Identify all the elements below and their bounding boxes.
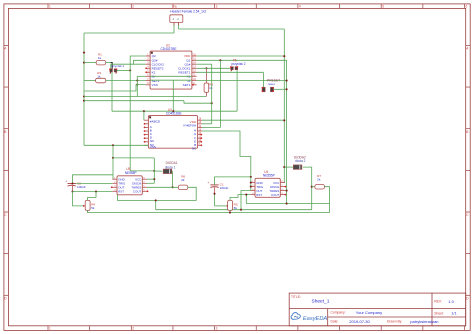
svg-text:P9: P9 bbox=[173, 5, 177, 9]
svg-text:TITLE:: TITLE: bbox=[291, 295, 301, 299]
wire U3 row4 to U4 node bbox=[202, 131, 251, 177]
junction loop bbox=[155, 199, 157, 201]
wire CLOCK2 west bbox=[111, 63, 134, 65]
junction OUT rail209 bbox=[240, 209, 242, 211]
resistor R2 body bbox=[96, 78, 106, 83]
wire bottom rail y212 bbox=[88, 210, 330, 212]
svg-text:2019-07-30: 2019-07-30 bbox=[349, 319, 370, 324]
wire rail jog to Q1# net bbox=[184, 101, 212, 104]
wire Q1# vertical to U3 bbox=[211, 64, 213, 124]
wire bus y111 bbox=[112, 110, 237, 112]
svg-text:reset: reset bbox=[268, 82, 275, 86]
push button reset bbox=[262, 87, 265, 92]
svg-text:1/1: 1/1 bbox=[451, 311, 456, 315]
svg-text:Sheet_1: Sheet_1 bbox=[312, 299, 330, 305]
junction VSS branch bbox=[112, 144, 114, 146]
svg-text:Header Female 2.54_1x2: Header Female 2.54_1x2 bbox=[170, 9, 206, 13]
capacitor C1 polarized bbox=[210, 184, 218, 186]
wire Q1# east bbox=[197, 63, 212, 65]
U4 pin stubs bbox=[250, 182, 255, 184]
svg-text:#ABCD: #ABCD bbox=[150, 120, 161, 124]
wire R6 feedback loop bbox=[118, 187, 197, 200]
wire U5 VCC bbox=[147, 178, 154, 180]
svg-text:Drawn By:: Drawn By: bbox=[387, 320, 402, 324]
wire J1 PRESET net to V2 bbox=[197, 80, 287, 82]
wire top rail right bbox=[179, 28, 285, 30]
junction U4 TRIG bbox=[250, 186, 252, 188]
svg-text:4: 4 bbox=[299, 4, 301, 8]
frame row ticks bbox=[4, 44, 8, 46]
wire R5 top to U4 RST loop bbox=[230, 195, 246, 201]
svg-text:2k: 2k bbox=[181, 178, 185, 182]
svg-text:SET1: SET1 bbox=[183, 83, 191, 87]
svg-text:CD4511BE: CD4511BE bbox=[166, 112, 182, 116]
junction V2 rail y203 bbox=[286, 203, 288, 205]
junction C2 top bbox=[71, 182, 73, 184]
wire loop branch down bbox=[155, 200, 157, 209]
wire diode2 cathode down bbox=[303, 167, 312, 210]
wire button1 to corner bbox=[117, 69, 130, 71]
svg-text:dioda 1: dioda 1 bbox=[165, 165, 176, 169]
svg-text:1.0: 1.0 bbox=[448, 299, 454, 304]
wire J2-K1 crossing under U2 bbox=[150, 75, 192, 77]
wire rail to R2 bbox=[84, 80, 96, 82]
svg-text:CD4027BE: CD4027BE bbox=[161, 47, 177, 51]
junction diode1/THRES bbox=[172, 186, 174, 188]
junction bus branch bbox=[172, 110, 174, 112]
wire reset to V2 bbox=[274, 88, 287, 90]
svg-text:1: 1 bbox=[49, 326, 51, 330]
junction R5/rail bbox=[229, 212, 231, 214]
junction V2 PRESET bbox=[286, 80, 288, 82]
wire to R4 bbox=[73, 192, 84, 206]
svg-text:COUT: COUT bbox=[271, 193, 279, 197]
wire button1 node down to diode line bbox=[129, 70, 131, 170]
wire U3 VDD to V1 bbox=[202, 119, 284, 121]
svg-text:EasyEDA: EasyEDA bbox=[303, 316, 328, 322]
wire rail y96 to R3 bbox=[84, 96, 206, 98]
svg-text:2k: 2k bbox=[317, 178, 321, 182]
svg-text:VSS: VSS bbox=[150, 145, 156, 149]
wire rail y203 bbox=[246, 203, 329, 205]
wire button1 pin3 drop to bus bbox=[111, 72, 113, 111]
svg-text:NE555P: NE555P bbox=[125, 171, 137, 175]
wire U5 DISCH bbox=[147, 182, 154, 184]
wire Q1 vertical to U3 bbox=[219, 60, 221, 127]
wire bus to U3 pin A bbox=[143, 111, 145, 120]
svg-text:2: 2 bbox=[132, 326, 134, 330]
svg-text:Company:: Company: bbox=[331, 311, 346, 315]
wire C2 top up to GND net bbox=[73, 175, 114, 184]
junction RST/R5 bbox=[245, 194, 247, 196]
junction left rail R1 bbox=[83, 62, 85, 64]
svg-text:RST: RST bbox=[118, 190, 124, 194]
svg-text:Your Company: Your Company bbox=[356, 310, 382, 315]
wire R2 to U2 SET2 bbox=[106, 80, 146, 82]
wire U4 OUT loop bbox=[241, 191, 250, 210]
svg-text:3: 3 bbox=[216, 326, 218, 330]
svg-text:Date:: Date: bbox=[331, 320, 339, 324]
junction R4 top net bbox=[95, 190, 97, 192]
wire U4 RST loop bbox=[246, 195, 250, 204]
svg-text:Sheet:: Sheet: bbox=[434, 311, 444, 315]
junction CLOCK1/R3 bbox=[205, 67, 207, 69]
resistor R7 body bbox=[315, 185, 325, 190]
wire J2 west bbox=[137, 75, 145, 77]
resistor R1 body bbox=[96, 60, 106, 65]
wire drop to reset button bbox=[262, 72, 264, 87]
wire V2 Q1 net vertical bbox=[286, 60, 288, 203]
svg-text:przycisk 2: przycisk 2 bbox=[231, 62, 245, 66]
resistor R5 bbox=[228, 200, 233, 210]
capacitor C2 polarized bbox=[68, 183, 76, 185]
svg-text:1k: 1k bbox=[209, 86, 213, 90]
wire C2 bottom to U5 RST bbox=[73, 191, 113, 193]
junction V2 THRES bbox=[286, 190, 288, 192]
wire left power rail bbox=[83, 33, 85, 145]
U2 unconnected pin markers RESET2 K2 bbox=[145, 67, 147, 69]
junction VCC node bbox=[153, 178, 155, 180]
junction diode1 left bbox=[153, 170, 155, 172]
wire button2 pin4 drop to bus bbox=[236, 70, 238, 111]
wire C2 bottom stub bbox=[72, 186, 74, 192]
junction C2 bottom bbox=[71, 190, 73, 192]
svg-text:5: 5 bbox=[382, 4, 384, 8]
junction left rail top bbox=[83, 52, 85, 54]
wire R3 bottom to rail bbox=[205, 92, 207, 96]
P9 pin 2 stub bbox=[178, 22, 180, 25]
wire C1 bottom down bbox=[214, 194, 216, 206]
push button przycisk 2 P6 bbox=[231, 67, 234, 70]
junction V2 reset bbox=[286, 88, 288, 90]
wire into U3 pin row3 bbox=[202, 126, 220, 128]
junction Q1# net bbox=[211, 102, 213, 104]
svg-text:COUT: COUT bbox=[133, 190, 141, 194]
svg-text:1k: 1k bbox=[98, 56, 102, 60]
wire V1 power vertical bbox=[283, 29, 285, 183]
svg-text:VSS: VSS bbox=[152, 83, 158, 87]
wire to R7 bbox=[312, 186, 315, 188]
wire R7 right down to rail bbox=[324, 187, 329, 213]
wire R1 to button1 bbox=[106, 62, 113, 64]
junction VSS bbox=[136, 84, 138, 86]
junction rail y100 bbox=[83, 100, 85, 102]
wire branch down to bus bbox=[172, 80, 174, 111]
U3 unconnected pin markers bbox=[144, 123, 146, 125]
wire C1 bottom stub bbox=[214, 187, 216, 194]
wire VSS to rail bbox=[84, 85, 145, 91]
frame column ticks bbox=[47, 4, 49, 8]
U4 COUT marker bbox=[285, 194, 287, 196]
svg-text:dioda 2: dioda 2 bbox=[295, 159, 306, 163]
junction V1 diode2 bbox=[283, 166, 285, 168]
junction Q1 branch bbox=[219, 59, 221, 61]
wire V1 to diode2 anode bbox=[284, 166, 293, 168]
svg-text:6: 6 bbox=[466, 4, 468, 8]
wire C1 top to U4 node bbox=[215, 177, 251, 185]
svg-text:K*#EFGH: K*#EFGH bbox=[183, 123, 196, 127]
wire SET2-J1 crossing under U2 bbox=[150, 79, 192, 81]
U3 pin1 marker bbox=[149, 116, 151, 118]
wire P9 pin2 drop bbox=[178, 25, 180, 29]
junction bus U3 pinA bbox=[143, 110, 145, 112]
wire y158 horizontal bbox=[113, 157, 154, 159]
junction y158 bbox=[112, 157, 114, 159]
resistor R6 body bbox=[178, 185, 188, 190]
svg-text:100uF: 100uF bbox=[220, 186, 229, 190]
svg-text:B: B bbox=[466, 130, 468, 134]
wire THRES to R6 bbox=[147, 186, 178, 188]
wire to diode1 anode bbox=[154, 170, 162, 172]
U5 pin stubs bbox=[112, 178, 117, 180]
U3 pin stubs bbox=[144, 119, 149, 121]
junction U4 GND bbox=[250, 182, 252, 184]
wire to R5 bbox=[215, 205, 228, 207]
U4 DISCH marker bbox=[285, 186, 287, 188]
wire Q2#-CLOCK2 loop bbox=[134, 60, 146, 64]
wire rail to R1 bbox=[84, 62, 96, 64]
wire R5 bottom bbox=[229, 210, 231, 212]
svg-text:NE555P: NE555P bbox=[263, 174, 275, 178]
wire rail y209 bbox=[156, 209, 312, 211]
push button przycisk 1 bbox=[110, 69, 113, 72]
svg-text:5k: 5k bbox=[91, 206, 95, 210]
svg-text:B: B bbox=[4, 130, 6, 134]
P9 pin 1 stub bbox=[173, 22, 175, 25]
junction V1 VDD U3 bbox=[283, 119, 285, 121]
svg-text:REV:: REV: bbox=[434, 300, 442, 304]
wire branch down bbox=[112, 145, 114, 158]
U5 OUT marker bbox=[111, 186, 113, 188]
U2 pin1 marker bbox=[151, 52, 153, 54]
EasyEDA logo bbox=[291, 313, 300, 320]
resistor R3 body bbox=[204, 83, 209, 92]
junction V1 VDD U2 bbox=[283, 55, 285, 57]
svg-text:RST: RST bbox=[256, 193, 262, 197]
wire Q1 east to V2 bbox=[197, 59, 287, 61]
wire P9 pin1 drop bbox=[173, 25, 175, 33]
wire CLOCK2 into button1 bbox=[110, 64, 112, 69]
diode DIODA2 body bbox=[293, 165, 302, 170]
junction diode2/R7 bbox=[311, 186, 313, 188]
wire VCC DISCH node vertical bbox=[153, 158, 155, 183]
svg-text:5k: 5k bbox=[234, 206, 238, 210]
wire VSS rail U3 bbox=[84, 144, 148, 146]
wire button1 node to diode node bbox=[130, 170, 154, 172]
wire down to U5 GND bbox=[112, 158, 114, 179]
junction C1 net bbox=[213, 193, 215, 195]
junction SET2/J2 bbox=[136, 79, 138, 81]
wire corner up to U2 Q2 bbox=[130, 56, 145, 70]
svg-text:100uF: 100uF bbox=[77, 185, 86, 189]
connector P9 body bbox=[170, 15, 183, 23]
U2 SET1 unconnected marker bbox=[192, 84, 194, 86]
wire rail y100 bbox=[84, 100, 184, 102]
wire C2 to U5 TRIG bbox=[76, 182, 113, 184]
wire RESET1 east bbox=[197, 71, 264, 73]
wire J2 vertical to GND rail bbox=[136, 76, 138, 96]
diode DIODA1 body bbox=[163, 169, 172, 174]
wire R4 top to RST net bbox=[88, 192, 96, 201]
wire into U3 pin row2 bbox=[202, 123, 212, 125]
resistor R4 bbox=[85, 200, 90, 210]
junction rail y96 bbox=[83, 95, 85, 97]
junction C1/U4 node bbox=[250, 176, 252, 178]
wire THRES to V2 bbox=[285, 190, 287, 192]
U5 COUT marker bbox=[147, 190, 149, 192]
wire VDD row to V1 bbox=[197, 55, 285, 57]
junction button1 right bbox=[129, 69, 131, 71]
wire CLOCK1 to button2 bbox=[197, 67, 231, 69]
wire top rail left bbox=[84, 32, 174, 34]
svg-text:1: 1 bbox=[49, 4, 51, 8]
wire U4 left column bbox=[250, 177, 252, 191]
wire diode1 cathode down bbox=[172, 171, 174, 187]
wire drop to button1 pin1 bbox=[111, 63, 113, 69]
title block bbox=[289, 293, 466, 326]
U2 pin stubs bbox=[145, 55, 150, 57]
svg-text:3: 3 bbox=[216, 4, 218, 8]
svg-text:2: 2 bbox=[132, 4, 134, 8]
wire R3 top to CLOCK1 row bbox=[205, 68, 207, 83]
svg-text:patryksieradzan: patryksieradzan bbox=[410, 319, 438, 324]
